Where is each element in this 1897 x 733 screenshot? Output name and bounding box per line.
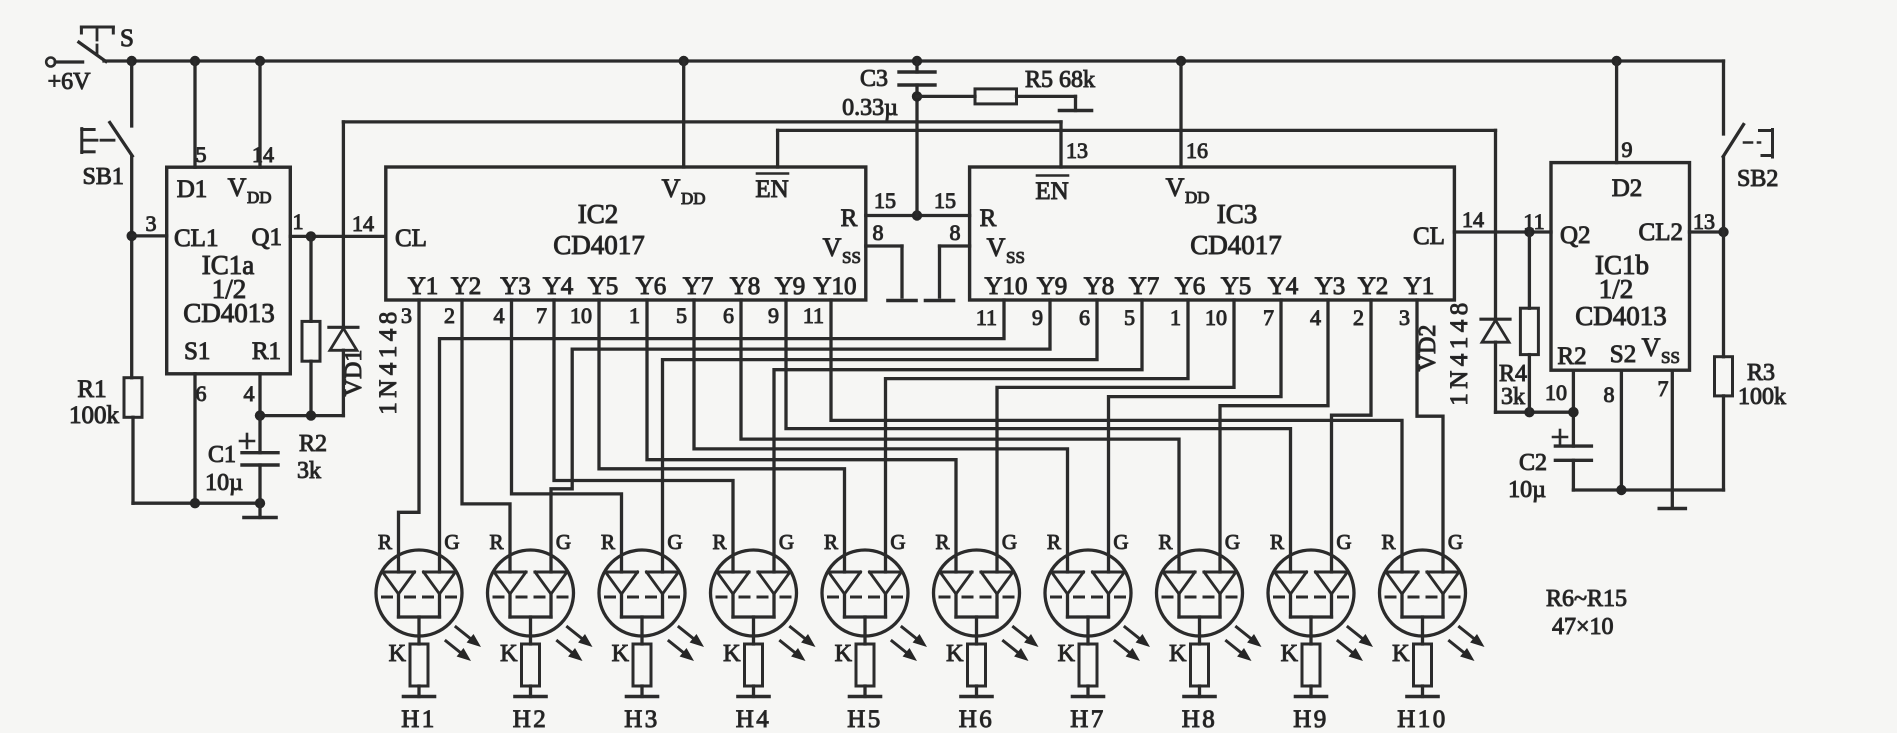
svg-text:G: G: [1336, 530, 1351, 554]
svg-text:V: V: [987, 233, 1006, 262]
svg-text:6: 6: [723, 303, 734, 328]
svg-text:Q1: Q1: [251, 224, 282, 251]
svg-text:G: G: [890, 530, 905, 554]
svg-text:Y8: Y8: [730, 273, 761, 300]
svg-text:SS: SS: [1661, 348, 1680, 367]
svg-text:R2: R2: [299, 431, 327, 457]
svg-text:14: 14: [1462, 207, 1484, 232]
svg-text:100k: 100k: [69, 402, 120, 429]
svg-text:G: G: [1448, 530, 1463, 554]
svg-text:3k: 3k: [1501, 384, 1525, 410]
svg-text:+6V: +6V: [48, 69, 92, 95]
svg-text:8: 8: [873, 220, 884, 245]
svg-text:K: K: [723, 641, 741, 667]
svg-text:2: 2: [444, 303, 455, 328]
svg-text:R: R: [841, 205, 858, 232]
svg-text:H4: H4: [736, 706, 772, 733]
svg-text:K: K: [1169, 641, 1187, 667]
svg-text:C2: C2: [1519, 450, 1547, 476]
svg-text:Y5: Y5: [588, 273, 619, 300]
svg-text:Y1: Y1: [1404, 273, 1435, 300]
svg-text:SS: SS: [842, 248, 861, 267]
svg-text:10: 10: [1205, 305, 1227, 330]
svg-text:EN: EN: [1035, 178, 1068, 205]
svg-text:CL: CL: [1413, 223, 1445, 250]
svg-text:DD: DD: [681, 189, 706, 208]
svg-text:1/2: 1/2: [1599, 274, 1634, 304]
svg-text:6: 6: [1079, 305, 1090, 330]
svg-text:S2: S2: [1610, 341, 1636, 368]
svg-text:R2: R2: [1557, 343, 1586, 370]
svg-text:3k: 3k: [297, 458, 321, 484]
svg-text:4: 4: [494, 303, 505, 328]
svg-text:9: 9: [768, 303, 779, 328]
svg-text:1: 1: [629, 303, 640, 328]
svg-text:Y4: Y4: [1268, 273, 1299, 300]
svg-text:5: 5: [676, 303, 687, 328]
svg-text:V: V: [823, 233, 842, 262]
svg-text:C1: C1: [208, 442, 236, 468]
svg-text:G: G: [667, 530, 682, 554]
svg-text:3: 3: [401, 303, 412, 328]
svg-text:H8: H8: [1182, 706, 1218, 733]
svg-text:R: R: [1047, 530, 1061, 554]
svg-text:0.33µ: 0.33µ: [842, 95, 898, 121]
svg-text:K: K: [946, 641, 964, 667]
svg-text:7: 7: [1658, 376, 1669, 401]
svg-text:K: K: [1281, 641, 1299, 667]
svg-text:EN: EN: [755, 176, 788, 203]
svg-text:Y2: Y2: [451, 273, 482, 300]
svg-text:CD4013: CD4013: [183, 298, 275, 328]
svg-text:47×10: 47×10: [1552, 614, 1614, 640]
svg-text:G: G: [1113, 530, 1128, 554]
svg-text:Y7: Y7: [1129, 273, 1160, 300]
svg-text:R6~R15: R6~R15: [1546, 586, 1627, 612]
svg-text:Y3: Y3: [1315, 273, 1346, 300]
svg-text:1N4148: 1N4148: [1446, 298, 1473, 406]
svg-text:Y6: Y6: [636, 273, 667, 300]
svg-text:G: G: [1225, 530, 1240, 554]
svg-text:Y9: Y9: [775, 273, 806, 300]
svg-text:4: 4: [1310, 305, 1321, 330]
svg-text:Y10: Y10: [813, 273, 856, 300]
svg-text:1N4148: 1N4148: [375, 307, 402, 415]
svg-text:7: 7: [536, 303, 547, 328]
svg-text:5: 5: [196, 142, 207, 167]
svg-text:R: R: [824, 530, 838, 554]
svg-text:Q2: Q2: [1560, 222, 1591, 249]
svg-text:SS: SS: [1006, 248, 1025, 267]
svg-text:Y5: Y5: [1221, 273, 1252, 300]
svg-text:H5: H5: [847, 706, 883, 733]
svg-text:IC3: IC3: [1217, 199, 1258, 229]
svg-text:Y10: Y10: [984, 273, 1027, 300]
svg-text:G: G: [1002, 530, 1017, 554]
svg-text:11: 11: [803, 303, 824, 328]
svg-text:H7: H7: [1070, 706, 1106, 733]
svg-text:DD: DD: [247, 188, 272, 207]
svg-text:K: K: [1392, 641, 1410, 667]
svg-text:10: 10: [1545, 380, 1567, 405]
svg-text:15: 15: [874, 188, 896, 213]
svg-text:R: R: [712, 530, 726, 554]
svg-text:R5 68k: R5 68k: [1025, 67, 1095, 93]
svg-text:K: K: [389, 641, 407, 667]
svg-text:SB2: SB2: [1737, 166, 1778, 192]
svg-text:8: 8: [950, 220, 961, 245]
svg-text:2: 2: [1353, 305, 1364, 330]
svg-text:VD2: VD2: [1415, 325, 1441, 372]
svg-text:14: 14: [252, 142, 274, 167]
svg-text:4: 4: [244, 381, 255, 406]
svg-text:SB1: SB1: [83, 164, 124, 190]
svg-text:16: 16: [1186, 138, 1208, 163]
svg-text:10µ: 10µ: [1508, 477, 1546, 503]
svg-text:R1: R1: [252, 338, 281, 365]
svg-text:15: 15: [934, 188, 956, 213]
svg-text:Y8: Y8: [1084, 273, 1115, 300]
svg-text:R: R: [980, 205, 997, 232]
svg-text:Y4: Y4: [543, 273, 574, 300]
svg-text:Y7: Y7: [683, 273, 714, 300]
svg-text:3: 3: [146, 211, 157, 236]
svg-text:11: 11: [1523, 209, 1544, 234]
svg-text:14: 14: [352, 211, 374, 236]
svg-text:CL2: CL2: [1639, 219, 1683, 246]
svg-text:CD4017: CD4017: [1190, 230, 1282, 260]
svg-text:9: 9: [1622, 137, 1633, 162]
svg-text:V: V: [228, 173, 247, 202]
svg-text:Y1: Y1: [408, 273, 439, 300]
svg-text:S: S: [120, 25, 134, 52]
svg-text:7: 7: [1263, 305, 1274, 330]
svg-text:13: 13: [1066, 138, 1088, 163]
svg-text:C3: C3: [860, 66, 888, 92]
svg-text:R: R: [1270, 530, 1284, 554]
svg-text:H3: H3: [624, 706, 660, 733]
svg-text:3: 3: [1399, 305, 1410, 330]
svg-text:K: K: [500, 641, 518, 667]
svg-text:DD: DD: [1185, 188, 1210, 207]
svg-text:V: V: [1166, 173, 1185, 202]
svg-text:K: K: [835, 641, 853, 667]
svg-text:R: R: [489, 530, 503, 554]
svg-text:10: 10: [570, 303, 592, 328]
svg-text:H2: H2: [513, 706, 549, 733]
svg-text:K: K: [612, 641, 630, 667]
svg-text:R1: R1: [77, 376, 106, 403]
svg-text:VD1: VD1: [341, 350, 367, 397]
svg-text:R: R: [1158, 530, 1172, 554]
svg-text:Y6: Y6: [1175, 273, 1206, 300]
svg-text:CL: CL: [395, 225, 427, 252]
svg-text:R: R: [935, 530, 949, 554]
svg-text:V: V: [1642, 333, 1661, 362]
svg-text:K: K: [1058, 641, 1076, 667]
svg-text:IC2: IC2: [578, 199, 619, 229]
svg-text:V: V: [662, 174, 681, 203]
svg-text:Y2: Y2: [1358, 273, 1389, 300]
svg-text:CD4013: CD4013: [1575, 301, 1667, 331]
svg-text:Y9: Y9: [1037, 273, 1068, 300]
svg-text:H1: H1: [401, 706, 437, 733]
svg-text:Y3: Y3: [500, 273, 531, 300]
svg-text:R: R: [378, 530, 392, 554]
svg-text:10µ: 10µ: [205, 470, 243, 496]
svg-text:CD4017: CD4017: [553, 230, 645, 260]
svg-text:G: G: [444, 530, 459, 554]
svg-text:H10: H10: [1397, 706, 1448, 733]
svg-text:1: 1: [293, 209, 304, 234]
svg-text:H9: H9: [1293, 706, 1329, 733]
svg-text:D2: D2: [1612, 175, 1643, 202]
svg-text:13: 13: [1693, 209, 1715, 234]
svg-text:9: 9: [1032, 305, 1043, 330]
svg-text:100k: 100k: [1738, 384, 1786, 410]
svg-text:R3: R3: [1747, 360, 1775, 386]
svg-text:G: G: [556, 530, 571, 554]
svg-text:H6: H6: [959, 706, 995, 733]
svg-text:6: 6: [196, 381, 207, 406]
svg-text:R: R: [601, 530, 615, 554]
svg-text:D1: D1: [177, 176, 208, 203]
svg-text:S1: S1: [184, 338, 210, 365]
svg-text:11: 11: [976, 305, 997, 330]
svg-text:CL1: CL1: [174, 225, 218, 252]
svg-text:R: R: [1381, 530, 1395, 554]
svg-text:8: 8: [1604, 382, 1615, 407]
svg-text:G: G: [779, 530, 794, 554]
svg-text:5: 5: [1124, 305, 1135, 330]
svg-text:1: 1: [1170, 305, 1181, 330]
